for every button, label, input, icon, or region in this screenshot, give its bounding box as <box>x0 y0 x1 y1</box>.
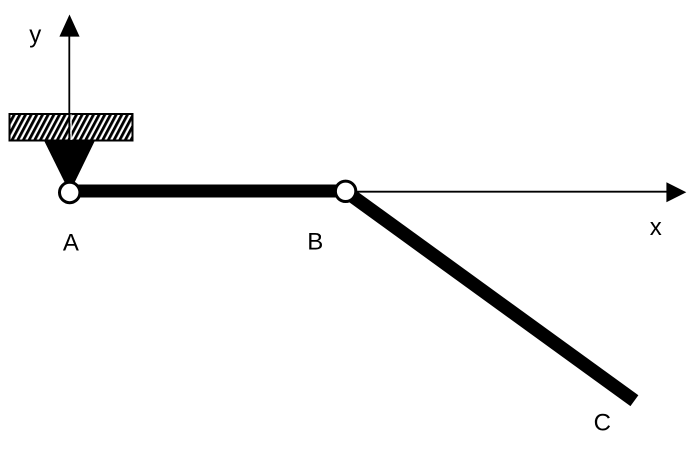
hatch seam highlight <box>70 115 72 141</box>
svg-text:A: A <box>63 230 79 257</box>
pin joint B <box>335 181 355 201</box>
member BC <box>346 191 635 400</box>
svg-text:C: C <box>594 410 611 437</box>
member AB <box>70 185 346 198</box>
svg-text:x: x <box>650 214 662 241</box>
svg-text:y: y <box>29 21 41 48</box>
pin support triangle <box>44 141 95 193</box>
x axis wire <box>348 191 668 193</box>
y axis arrowhead <box>59 15 79 37</box>
fixed support hatched block <box>10 114 133 141</box>
y axis wire <box>68 34 70 141</box>
x axis arrowhead <box>666 182 686 202</box>
pin joint A <box>59 182 79 202</box>
svg-text:B: B <box>307 229 323 256</box>
